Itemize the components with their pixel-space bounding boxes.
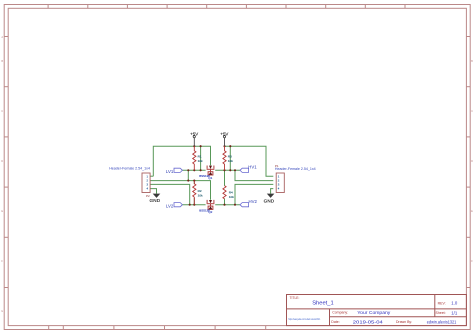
svg-text:2019-05-04: 2019-05-04 xyxy=(353,319,384,324)
svg-text:https://easyeda.com/edwin.alex: https://easyeda.com/edwin.alexis1321 xyxy=(288,318,321,321)
svg-text:D: D xyxy=(471,159,473,163)
svg-text:LV2: LV2 xyxy=(166,203,174,208)
svg-text:10k: 10k xyxy=(198,159,203,163)
svg-text:1.0: 1.0 xyxy=(451,301,458,306)
svg-text:10k: 10k xyxy=(198,194,203,198)
svg-text:Company:: Company: xyxy=(332,311,348,315)
svg-text:edwin.alexis1321: edwin.alexis1321 xyxy=(427,320,457,325)
svg-text:GND: GND xyxy=(150,198,161,203)
svg-text:R2: R2 xyxy=(198,189,202,193)
svg-text:TITLE:: TITLE: xyxy=(290,296,300,300)
svg-text:1/1: 1/1 xyxy=(451,311,458,316)
svg-text:R3: R3 xyxy=(228,154,232,158)
svg-text:HV1: HV1 xyxy=(248,165,257,170)
svg-text:B: B xyxy=(471,59,473,63)
svg-text:B: B xyxy=(1,59,3,63)
svg-text:GND: GND xyxy=(264,199,275,204)
svg-text:C: C xyxy=(471,109,473,113)
svg-text:D: D xyxy=(1,159,3,163)
svg-text:R1: R1 xyxy=(198,154,202,158)
svg-text:Q2: Q2 xyxy=(208,210,212,214)
svg-text:G: G xyxy=(1,309,3,313)
svg-text:Drawn By:: Drawn By: xyxy=(396,320,412,324)
svg-text:Your Company: Your Company xyxy=(357,310,391,315)
svg-text:+5V: +5V xyxy=(220,131,228,136)
svg-text:P2: P2 xyxy=(146,194,150,198)
svg-text:Header-Female 2.54_1x4: Header-Female 2.54_1x4 xyxy=(109,167,150,171)
svg-text:R4: R4 xyxy=(229,191,233,195)
svg-text:P1: P1 xyxy=(275,164,279,168)
svg-text:Q1: Q1 xyxy=(208,176,212,180)
svg-text:LV1: LV1 xyxy=(166,169,174,174)
svg-text:C: C xyxy=(1,109,3,113)
svg-text:Date:: Date: xyxy=(331,320,339,324)
svg-text:10k: 10k xyxy=(229,195,234,199)
svg-text:10k: 10k xyxy=(228,159,233,163)
svg-text:+5V: +5V xyxy=(190,131,198,136)
svg-text:Sheet:: Sheet: xyxy=(436,311,446,315)
svg-text:REV:: REV: xyxy=(438,301,446,305)
svg-text:E: E xyxy=(471,209,473,213)
svg-text:Header-Female 2.54_1x4: Header-Female 2.54_1x4 xyxy=(275,167,316,171)
svg-text:HV2: HV2 xyxy=(249,199,258,204)
svg-text:E: E xyxy=(1,209,3,213)
svg-text:Sheet_1: Sheet_1 xyxy=(312,301,334,307)
svg-text:A: A xyxy=(1,35,3,39)
